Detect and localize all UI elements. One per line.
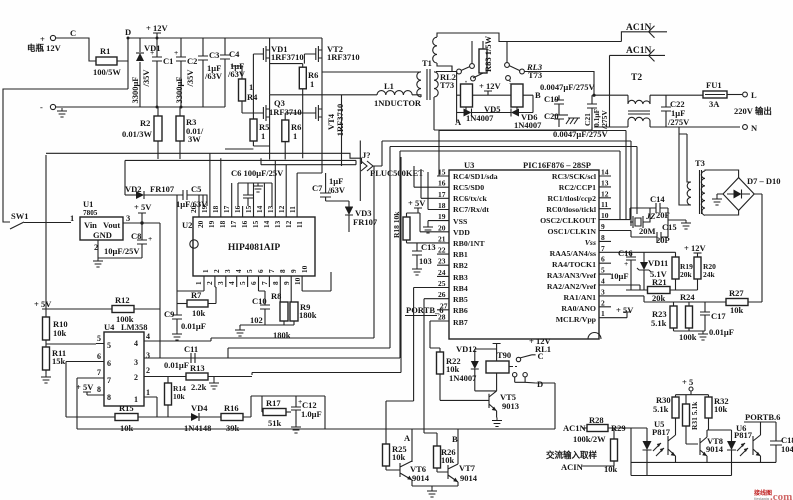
svg-text:15: 15 <box>438 168 446 177</box>
resistor R21 20k <box>611 277 698 303</box>
resistor R23 5.1k <box>651 302 677 331</box>
svg-text:16: 16 <box>438 179 446 188</box>
wire VDD pin20 <box>418 213 437 232</box>
svg-text:9013: 9013 <box>502 401 519 411</box>
resistor R24 100k <box>679 292 697 342</box>
svg-text:1N4007: 1N4007 <box>449 373 477 383</box>
svg-text:21: 21 <box>438 234 446 243</box>
diode VD6 1N4007 <box>511 95 542 130</box>
svg-text:20: 20 <box>189 205 198 213</box>
ground at VSS pin19 <box>423 221 437 233</box>
svg-text:19: 19 <box>200 205 209 213</box>
transformer T3 <box>679 127 705 215</box>
svg-text:9: 9 <box>289 269 298 273</box>
resistor R16 39k <box>221 396 251 433</box>
svg-text:10k: 10k <box>173 392 186 401</box>
resistor R1 <box>93 46 121 77</box>
relay RL2 coil <box>461 81 473 107</box>
svg-text:+ 5V: + 5V <box>76 382 94 392</box>
svg-text:0.01μF: 0.01μF <box>709 327 734 337</box>
relay T90 coil <box>475 344 511 391</box>
svg-text:R83 1/5W: R83 1/5W <box>483 35 493 72</box>
diode VD1 <box>136 38 161 107</box>
svg-text:T3: T3 <box>695 158 705 168</box>
svg-text:JZ: JZ <box>645 211 655 221</box>
svg-text:0.0047μF/275V: 0.0047μF/275V <box>540 82 595 92</box>
svg-text:1: 1 <box>293 131 297 141</box>
capacitor C6 100uF/25V <box>231 168 284 206</box>
wire U2 pin10 out <box>302 272 331 291</box>
svg-text:C14: C14 <box>650 194 665 204</box>
svg-text:+: + <box>624 259 628 268</box>
svg-text:10k: 10k <box>730 305 744 315</box>
wire coil bottoms <box>466 107 517 113</box>
regulator U1 7805 <box>70 199 130 252</box>
U3 right pins <box>540 168 611 325</box>
svg-text:3300μF: 3300μF <box>174 76 184 103</box>
svg-text:14: 14 <box>262 220 271 228</box>
svg-text:20M: 20M <box>639 226 656 236</box>
svg-text:9: 9 <box>601 222 605 231</box>
svg-text:7: 7 <box>601 244 605 253</box>
svg-text:1.0μF: 1.0μF <box>301 409 322 419</box>
svg-text:10k: 10k <box>441 455 455 465</box>
svg-text:D7 – D10: D7 – D10 <box>747 176 781 186</box>
svg-text:18: 18 <box>218 220 227 228</box>
svg-text:L1: L1 <box>384 81 394 91</box>
svg-text:5: 5 <box>245 269 254 273</box>
resistor R26 10k <box>434 446 456 472</box>
resistor R15 10k <box>66 403 191 433</box>
svg-text:3: 3 <box>223 269 232 273</box>
svg-text:R7: R7 <box>191 290 202 300</box>
svg-text:LM358: LM358 <box>121 322 147 332</box>
wire left boundary D to SW1 <box>3 61 128 222</box>
wire C16 VD11 bottoms <box>631 283 644 290</box>
wire pin28 riser to R22 <box>430 321 437 330</box>
svg-text:1: 1 <box>261 131 265 141</box>
relay RL2 contacts <box>440 41 475 90</box>
svg-text:AC1N: AC1N <box>626 46 651 56</box>
svg-text:5.1k: 5.1k <box>651 318 667 328</box>
battery minus terminal <box>40 102 56 112</box>
svg-text:1: 1 <box>310 79 314 89</box>
svg-text:13: 13 <box>601 178 609 187</box>
resistor R6 (lower) <box>282 113 302 160</box>
svg-text:.com: .com <box>770 491 792 500</box>
wire R1 to node D <box>117 38 128 61</box>
svg-text:10: 10 <box>300 265 309 273</box>
wire T1 secondary bottom <box>433 97 435 130</box>
svg-text:3: 3 <box>146 351 150 360</box>
label ACIN 2 <box>561 461 614 472</box>
svg-text:Vin: Vin <box>84 220 97 230</box>
mosfet Q3 1RF3710 <box>242 95 302 160</box>
resistor R9 180k <box>290 287 317 325</box>
svg-text:RA0/ANO: RA0/ANO <box>561 304 596 313</box>
svg-text:100/5W: 100/5W <box>93 67 121 77</box>
svg-text:MCLR/Vpp: MCLR/Vpp <box>556 315 597 324</box>
crystal JZ <box>611 208 655 228</box>
wire U4 pin4 row <box>144 340 211 342</box>
svg-text:1: 1 <box>70 213 74 223</box>
svg-text:1: 1 <box>201 269 210 273</box>
transformer T1 aux winding <box>433 33 622 72</box>
svg-text:U3: U3 <box>464 160 474 170</box>
svg-text:100k/2W: 100k/2W <box>573 434 606 444</box>
svg-text:12: 12 <box>601 189 609 198</box>
inductor L1 <box>374 81 422 108</box>
svg-text:RC2/CCP1: RC2/CCP1 <box>559 183 596 192</box>
svg-text:20: 20 <box>196 220 205 228</box>
terminal N <box>743 123 758 133</box>
svg-text:1: 1 <box>249 82 253 92</box>
svg-text:RC3/SCK/scl: RC3/SCK/scl <box>552 172 597 181</box>
capacitor C10 102 <box>250 287 270 325</box>
svg-text:1: 1 <box>134 395 138 404</box>
svg-text:4: 4 <box>134 339 138 348</box>
svg-text:3300μF: 3300μF <box>130 76 140 103</box>
svg-text:24k: 24k <box>703 270 716 279</box>
svg-text:P817: P817 <box>652 427 671 437</box>
svg-text:C10: C10 <box>252 296 267 306</box>
node B lower <box>452 429 458 464</box>
svg-text:-: - <box>40 102 43 112</box>
capacitor C2 <box>174 38 197 107</box>
svg-text:GND: GND <box>93 230 112 240</box>
capacitor C1 <box>130 38 173 107</box>
svg-text:P817: P817 <box>734 430 753 440</box>
svg-text:+ 12V: + 12V <box>479 81 501 91</box>
svg-text:/63V: /63V <box>204 71 223 81</box>
wire bundle risers to U3 <box>144 131 637 376</box>
wire phase node leg B to T1 <box>322 71 421 73</box>
svg-text:RB2: RB2 <box>453 261 468 270</box>
svg-text:8: 8 <box>278 269 287 273</box>
resistor R20 24k <box>694 253 716 290</box>
svg-text:+ 5V: + 5V <box>408 198 426 208</box>
wire U4 pin6 row <box>66 362 96 418</box>
capacitor C22 <box>661 95 690 127</box>
IC U3 PIC16F876-28SP <box>449 160 601 339</box>
svg-text:RC4/SD1/sda: RC4/SD1/sda <box>453 172 498 181</box>
svg-text:U1: U1 <box>83 199 93 209</box>
wire long control line <box>77 383 555 429</box>
resistor R18 <box>392 211 437 243</box>
diode VD4 1N4148 <box>184 403 221 433</box>
resistor R8 <box>271 287 288 325</box>
relay RL1 contacts <box>510 351 544 389</box>
svg-text:RB3: RB3 <box>453 273 468 282</box>
resistor R5 <box>250 54 270 146</box>
svg-text:OSC1/CLK1N: OSC1/CLK1N <box>547 227 596 236</box>
fuse FU1 3A <box>703 80 742 109</box>
svg-text:RA3/AN3/Vref: RA3/AN3/Vref <box>547 271 596 280</box>
IC U2 HIP4081AIP <box>182 217 315 276</box>
svg-text:C20: C20 <box>544 111 559 121</box>
label +12V relay supply <box>479 81 501 95</box>
label +5V at U1 <box>134 202 152 223</box>
svg-text:RA2/AN2/Vref: RA2/AN2/Vref <box>547 282 596 291</box>
svg-text:VSS: VSS <box>453 217 467 226</box>
wire U4 pin1 <box>144 397 157 417</box>
svg-text:4: 4 <box>234 269 243 273</box>
svg-text:13: 13 <box>266 205 275 213</box>
svg-text:RC0/tloso/tickl: RC0/tloso/tickl <box>546 205 597 214</box>
svg-text:FR107: FR107 <box>150 184 175 194</box>
op-amp U4 LM358 <box>96 322 152 406</box>
svg-text:2: 2 <box>601 298 605 307</box>
wire +12V rail <box>128 37 322 39</box>
svg-text:PORTB.6: PORTB.6 <box>745 412 780 422</box>
wire upper box line <box>46 153 362 164</box>
svg-text:7: 7 <box>260 281 269 285</box>
svg-text:11: 11 <box>601 200 608 209</box>
svg-text:18: 18 <box>438 201 446 210</box>
svg-text:10k: 10k <box>392 452 406 462</box>
svg-text:+: + <box>174 48 178 57</box>
svg-text:RB5: RB5 <box>453 295 468 304</box>
diode VD2 FR107 <box>125 184 183 199</box>
svg-text:Vout: Vout <box>103 220 120 230</box>
wire U2 pin1 to R7 <box>177 195 204 304</box>
svg-text:3: 3 <box>126 213 130 223</box>
transformer T2 <box>628 73 650 127</box>
mosfet VT1 (labelled VD1) 1RF3710 <box>253 38 303 95</box>
capacitor C18 104 <box>770 422 793 462</box>
capacitor C15 20P <box>611 222 677 245</box>
capacitor C17 <box>700 302 734 337</box>
svg-text:0.01/3W: 0.01/3W <box>122 129 152 139</box>
svg-text:5: 5 <box>107 341 111 350</box>
svg-text:3W: 3W <box>188 134 201 144</box>
svg-text:100k: 100k <box>679 332 697 342</box>
svg-text:C9: C9 <box>164 309 174 319</box>
wire ground rail <box>56 106 225 108</box>
svg-text:102: 102 <box>250 315 263 325</box>
svg-text:SW1: SW1 <box>11 211 28 221</box>
capacitor C8 <box>104 223 152 258</box>
svg-text:39k: 39k <box>226 423 240 433</box>
svg-text:+: + <box>150 48 154 57</box>
svg-text:PORTB_6: PORTB_6 <box>406 305 443 315</box>
svg-text:9014: 9014 <box>460 473 478 483</box>
svg-text:VT7: VT7 <box>459 463 476 473</box>
svg-text:/63V: /63V <box>327 185 346 195</box>
svg-text:103: 103 <box>419 256 432 266</box>
wire emitter ground row <box>412 486 458 497</box>
svg-text:VD2: VD2 <box>125 184 142 194</box>
diode VD12 1N4007 <box>449 344 497 391</box>
diode VD5 1N4007 <box>457 104 511 123</box>
label ACIN upper <box>621 23 667 42</box>
label +5V at MCLR <box>611 305 634 318</box>
svg-text:5: 5 <box>601 266 605 275</box>
wire +5V feed down <box>159 223 161 309</box>
svg-text:+ 5V: + 5V <box>134 202 152 212</box>
svg-text:51k: 51k <box>268 418 282 428</box>
watermark <box>753 489 792 500</box>
wire crystal caps common <box>668 208 691 237</box>
svg-text:5: 5 <box>238 281 247 285</box>
svg-text:RB1: RB1 <box>453 250 468 259</box>
svg-text:C16: C16 <box>618 248 633 258</box>
resistor R25 10k <box>383 444 407 470</box>
resistor R13 2.2k <box>144 363 252 392</box>
transistor VT8 9014 <box>700 430 732 462</box>
svg-text:14: 14 <box>255 205 264 213</box>
svg-text:3: 3 <box>134 358 138 367</box>
svg-text:C1: C1 <box>163 56 173 66</box>
svg-text:17: 17 <box>229 220 238 228</box>
svg-text:10k: 10k <box>120 423 134 433</box>
wire contact row <box>436 66 594 95</box>
svg-text:T73: T73 <box>440 80 454 90</box>
wire battery plus to R1 <box>56 38 96 61</box>
capacitor C20 <box>544 111 564 127</box>
chassis ground <box>559 115 580 124</box>
diode VD3 FR107 <box>345 201 378 232</box>
svg-text:C6 100μF/25V: C6 100μF/25V <box>231 168 284 178</box>
svg-text:+ 5V: + 5V <box>616 305 634 315</box>
svg-text:7805: 7805 <box>83 209 98 217</box>
svg-text:+ 12V: + 12V <box>684 243 706 253</box>
resistor R14 10k <box>165 377 187 418</box>
svg-text:FU1: FU1 <box>706 80 722 90</box>
relay RL3 coil <box>510 81 523 108</box>
svg-text:180k: 180k <box>299 310 317 320</box>
svg-text:15: 15 <box>251 220 260 228</box>
svg-text:C19: C19 <box>544 94 559 104</box>
svg-text:PIC16F876 – 28SP: PIC16F876 – 28SP <box>523 160 591 170</box>
label +12V analog <box>684 243 706 253</box>
svg-text:4: 4 <box>601 277 605 286</box>
svg-text:C7: C7 <box>312 183 323 193</box>
svg-text:14: 14 <box>601 168 609 177</box>
svg-text:VD11: VD11 <box>648 258 668 268</box>
svg-text:AC1N: AC1N <box>563 423 587 433</box>
wire phase node leg A to L1 <box>270 94 377 96</box>
svg-text:RC5/SD0: RC5/SD0 <box>453 183 484 192</box>
capacitor C5 <box>176 184 208 209</box>
transformer T1 <box>412 58 438 100</box>
resistor R2 <box>122 107 162 159</box>
svg-text:PLUC500KET: PLUC500KET <box>370 168 424 178</box>
zener VD11 5.1V <box>637 252 668 283</box>
svg-text:3A: 3A <box>709 99 720 109</box>
wire feedback top row <box>251 396 325 429</box>
svg-text:R4: R4 <box>247 92 258 102</box>
resistor R7 10k <box>177 287 216 318</box>
svg-text:L: L <box>751 90 757 100</box>
svg-text:R28: R28 <box>589 415 604 425</box>
svg-text:12: 12 <box>277 205 286 213</box>
svg-text:/35V: /35V <box>185 69 195 88</box>
label PORTB.6 <box>744 412 780 422</box>
svg-text:VDD: VDD <box>453 228 470 237</box>
svg-text:11: 11 <box>295 221 304 228</box>
svg-text:/63V: /63V <box>227 69 246 79</box>
svg-text:R16: R16 <box>224 403 239 413</box>
resistor R10 10k <box>43 317 68 347</box>
svg-text:25: 25 <box>438 279 446 288</box>
svg-text:180k: 180k <box>273 330 291 340</box>
svg-text:7: 7 <box>97 368 101 377</box>
node + battery terminal <box>40 28 76 44</box>
svg-text:10: 10 <box>601 211 609 220</box>
svg-text:20: 20 <box>438 223 446 232</box>
wire opto return rows <box>631 428 776 476</box>
label +5V at U4 pin8 <box>76 382 96 395</box>
svg-text:23: 23 <box>438 257 446 266</box>
resistor R6 (upper) <box>270 64 319 159</box>
wire lower return rail <box>434 129 592 131</box>
wire pin26 riser to R26 <box>424 299 437 446</box>
svg-text:20k: 20k <box>680 270 693 279</box>
svg-text:交流输入取样: 交流输入取样 <box>546 450 598 460</box>
resistor R32 10k <box>705 395 729 430</box>
svg-text:1RF3710: 1RF3710 <box>327 52 360 62</box>
svg-text:RC1/tlosl/ccp2: RC1/tlosl/ccp2 <box>547 194 596 203</box>
wire mains rails <box>592 95 740 130</box>
svg-text:RB6: RB6 <box>453 306 468 315</box>
svg-text:R15: R15 <box>119 403 134 413</box>
wire relay coil node <box>457 72 511 123</box>
svg-text:2: 2 <box>134 373 138 382</box>
svg-text:Vss: Vss <box>585 238 596 247</box>
svg-text:C: C <box>538 351 544 361</box>
resistor R19 20k <box>672 252 693 290</box>
svg-text:C: C <box>70 28 76 38</box>
capacitor C13 103 <box>412 242 436 275</box>
svg-text:10μF: 10μF <box>610 271 629 281</box>
svg-text:RAA5/AN4/ss: RAA5/AN4/ss <box>550 249 596 258</box>
svg-text:D: D <box>125 27 131 37</box>
svg-text:11: 11 <box>288 206 297 213</box>
wire vd2 box line <box>125 160 356 206</box>
svg-text:R27: R27 <box>729 288 744 298</box>
svg-text:1: 1 <box>601 309 605 318</box>
ground <box>57 108 67 117</box>
switch SW1 <box>10 211 71 229</box>
svg-text:5: 5 <box>97 334 101 343</box>
svg-text:R29: R29 <box>611 423 626 433</box>
resistor R17 51k <box>262 396 291 428</box>
svg-text:6: 6 <box>249 281 258 285</box>
transistor VT6 9014 <box>400 461 430 486</box>
svg-text:+ 5: + 5 <box>682 377 693 387</box>
svg-text:jiexiantu: jiexiantu <box>753 496 770 500</box>
svg-text:24: 24 <box>438 268 446 277</box>
svg-text:10k: 10k <box>714 404 728 414</box>
resistor R12 100k <box>46 295 160 358</box>
label +12V <box>146 23 168 38</box>
resistor R11 15k <box>41 347 66 383</box>
opto U6 P817 <box>727 422 761 476</box>
svg-text:R8: R8 <box>271 291 281 301</box>
svg-text:10k: 10k <box>192 308 206 318</box>
svg-text:C11: C11 <box>184 344 198 354</box>
wire R23 R24 C17 bottoms <box>674 331 709 340</box>
svg-text:13: 13 <box>273 220 282 228</box>
svg-text:1N4148: 1N4148 <box>184 423 211 433</box>
capacitor C19 <box>544 94 564 115</box>
svg-text:R13: R13 <box>190 363 205 373</box>
svg-text:22: 22 <box>438 246 446 255</box>
capacitor C9 <box>164 304 206 341</box>
wire left rail to R12 <box>45 155 47 309</box>
svg-text:9: 9 <box>282 281 291 285</box>
